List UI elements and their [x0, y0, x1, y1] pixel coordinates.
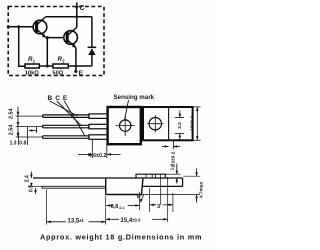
- node B on border: [7, 25, 10, 28]
- dimension 15.4±0.3: [106, 218, 168, 221]
- leader to lead3: [64, 101, 85, 137]
- svg-text:1.3: 1.3: [169, 163, 175, 170]
- svg-text:Sensing mark: Sensing mark: [114, 94, 155, 101]
- package front view outline: [108, 107, 141, 144]
- resistor R2: [53, 64, 68, 68]
- wire R2 to diode: [68, 65, 92, 67]
- dimension 3: [150, 204, 173, 207]
- node rail junction: [46, 65, 49, 68]
- svg-text:4,6±0.2: 4,6±0.2: [89, 153, 107, 159]
- dimension 4.6±0.2: [78, 140, 121, 158]
- dimension 8.8-0.2: [106, 204, 139, 207]
- resistor R1: [25, 64, 39, 68]
- dimension 4.7max: [142, 169, 200, 203]
- svg-text:Approx. weight 18 g.Dimensions: Approx. weight 18 g.Dimensions in mm: [40, 233, 202, 242]
- mounting hole front: [116, 116, 135, 136]
- wire collector rail: [46, 16, 92, 18]
- wire base input: [8, 26, 33, 28]
- svg-text:2.4: 2.4: [24, 175, 30, 182]
- transistor Q1: [33, 17, 47, 38]
- svg-text:0.8: 0.8: [19, 141, 26, 147]
- leader to lead2: [57, 101, 82, 126]
- node emitter rail junction: [75, 65, 78, 68]
- side profile raised boss: [136, 174, 165, 178]
- svg-text:C: C: [55, 95, 60, 102]
- svg-text:10kΩ: 10kΩ: [25, 71, 40, 77]
- node E terminal: [74, 70, 77, 73]
- wire Q1 emitter to Q2 base: [47, 37, 64, 39]
- pin lead B: [43, 115, 89, 118]
- leader to lead1: [50, 101, 78, 116]
- lead centerline extensions: [16, 116, 43, 137]
- dimension 13.5±1: [47, 221, 106, 224]
- side profile body: [106, 178, 143, 195]
- svg-text:E: E: [63, 95, 68, 102]
- side profile tab top line: [33, 177, 183, 179]
- dimension hole depth 3.2: [175, 111, 184, 140]
- node C terminal: [75, 3, 78, 28]
- package side view outline: [143, 107, 193, 140]
- pin lead C: [43, 125, 89, 128]
- svg-text:3.2: 3.2: [177, 122, 183, 129]
- svg-text:0.5: 0.5: [29, 185, 35, 192]
- dimension lead width marks: [19, 127, 37, 145]
- svg-text:50Ω: 50Ω: [52, 71, 64, 77]
- wire Q2 emitter down: [75, 48, 77, 72]
- wire R1 to R2: [39, 65, 53, 67]
- node R1 tap: [17, 25, 20, 28]
- dimension 1.3 boss: [176, 164, 179, 184]
- svg-text:1.3: 1.3: [10, 141, 17, 147]
- node emitter junction: [46, 36, 49, 39]
- transistor Q2: [64, 27, 78, 48]
- dashed enclosure box: [8, 7, 104, 76]
- leader sensing mark: [125, 100, 129, 121]
- node collector junction: [76, 15, 79, 18]
- side view mold-tab divider: [168, 107, 170, 140]
- svg-text:E: E: [79, 70, 84, 77]
- side profile tab: [142, 178, 182, 186]
- side profile leads: [28, 186, 106, 188]
- dimension lead pitch line: [17, 107, 20, 138]
- svg-text:C: C: [80, 5, 85, 12]
- angle 6 degrees: [140, 195, 144, 203]
- svg-text:2.54: 2.54: [8, 109, 14, 120]
- diode D1: [88, 17, 97, 66]
- wire R1 tap down: [19, 27, 25, 66]
- mounting hole side: [147, 115, 164, 133]
- dimension extension lines bottom: [47, 174, 173, 224]
- pin lead E: [43, 136, 89, 139]
- dimension tab 1.3±0.2: [162, 140, 180, 149]
- wire down to R1-R2 rail: [46, 38, 48, 66]
- svg-text:4.7max: 4.7max: [198, 182, 204, 199]
- dimension 10±0.4: [193, 107, 201, 140]
- svg-text:10±0.4: 10±0.4: [190, 116, 196, 131]
- svg-text:2.54: 2.54: [8, 125, 14, 136]
